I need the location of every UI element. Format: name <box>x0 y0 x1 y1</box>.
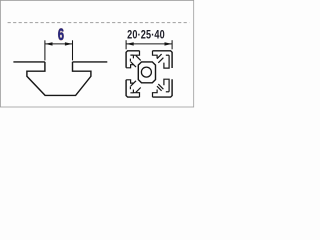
left slot lips <box>126 65 134 83</box>
core octagon <box>138 62 155 83</box>
bottom slot lips <box>133 90 157 98</box>
top-right cavity walls <box>166 54 169 56</box>
dim 6: left arrowhead <box>45 42 52 45</box>
svg-text:20·25·40: 20·25·40 <box>127 28 165 42</box>
dim 20·25·40: right arrowhead <box>165 42 172 45</box>
border frame <box>0 0 193 107</box>
dim 6: left extension line <box>44 40 46 60</box>
bottom-left webs <box>131 81 141 93</box>
dim 20·25·40: right extension line <box>171 40 173 49</box>
top-left webs <box>131 56 141 68</box>
dim 6: right arrowhead <box>65 42 72 45</box>
top slot lips <box>133 51 157 59</box>
groove detail: top surface right segment <box>73 61 108 63</box>
dim 6: dimension line <box>45 43 73 45</box>
dashed centerline <box>8 22 190 24</box>
bottom-right cavity walls <box>166 91 169 93</box>
top-right webs <box>157 54 163 63</box>
top-left cavity walls <box>130 55 133 61</box>
profile outer contour <box>126 51 172 97</box>
svg-text:6: 6 <box>58 25 64 44</box>
bottom-left cavity walls <box>130 86 133 92</box>
groove detail: slot cavity outline <box>27 62 91 96</box>
dim 20·25·40: left arrowhead <box>126 42 133 45</box>
dim 20·25·40: dimension line <box>126 43 172 45</box>
right slot lips on inner wall <box>164 55 169 92</box>
bottom-right webs <box>157 84 163 91</box>
dim 6: right extension line <box>72 40 74 60</box>
center bore <box>141 67 151 77</box>
dim 20·25·40: left extension line <box>125 40 127 49</box>
groove detail: top surface left segment <box>13 61 45 63</box>
